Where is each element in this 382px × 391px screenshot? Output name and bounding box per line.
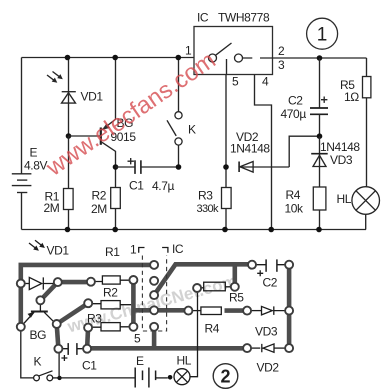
label VD3 pcb (255, 325, 278, 339)
svg-text:VD1: VD1 (81, 90, 104, 104)
pad C1 right (83, 345, 91, 353)
pad VD2 left (243, 344, 251, 352)
label E pcb (136, 354, 144, 368)
watermark red elecfans (41, 47, 221, 182)
svg-text:2M: 2M (44, 201, 60, 215)
wire trace pin5 stub (152, 327, 157, 349)
svg-text:1: 1 (317, 25, 328, 46)
pad C1 left (54, 345, 62, 353)
battery E (12, 146, 48, 193)
label IC pcb (172, 242, 184, 256)
capacitor C2 outline (256, 259, 285, 276)
pad R5 left (193, 284, 201, 292)
label HL pcb (177, 354, 192, 368)
svg-text:R2: R2 (92, 189, 107, 203)
node C1 left branch (57, 353, 61, 380)
wire base (69, 135, 101, 137)
node bottom rail pin4 (268, 227, 274, 233)
svg-text:1N4148: 1N4148 (320, 140, 360, 154)
node bottom rail R1 (65, 227, 71, 233)
node K middle junction (176, 164, 182, 170)
pad VD3 left (243, 307, 251, 315)
svg-text:R4: R4 (205, 322, 220, 336)
node bottom rail R3 (222, 227, 228, 233)
resistor R3 outline (92, 323, 129, 331)
node VD1 top rail (65, 55, 71, 61)
pad IC pin 2 (150, 277, 158, 285)
svg-text:VD1: VD1 (47, 244, 70, 258)
svg-text:VD3: VD3 (330, 153, 353, 167)
svg-text:R1: R1 (105, 245, 120, 259)
svg-text:5: 5 (134, 332, 141, 346)
svg-text:4: 4 (262, 75, 269, 89)
pad R2 left (84, 299, 92, 307)
wire pin 5 (225, 75, 227, 168)
svg-text:R3: R3 (198, 189, 213, 203)
pad base (36, 296, 44, 304)
wire trace pin3 diagonal to C2 rail (154, 264, 252, 295)
pad IC pin 4 (150, 306, 158, 314)
diode VD3 outline (251, 306, 285, 315)
pad IC pin 1 (150, 261, 158, 269)
svg-text:K: K (34, 355, 42, 369)
battery E outline (60, 368, 168, 388)
svg-text:3: 3 (278, 58, 285, 72)
svg-text:R2: R2 (103, 286, 118, 300)
figure number circle 2 (213, 364, 238, 389)
svg-text:R4: R4 (286, 188, 301, 202)
pad R4 left (184, 307, 192, 315)
label BG pcb (30, 328, 47, 342)
svg-text:2M: 2M (91, 202, 107, 216)
wire trace right vertical (287, 265, 292, 348)
svg-text:HL: HL (337, 192, 352, 206)
pin 1 label (185, 44, 192, 58)
wire left edge (battery branch) (21, 58, 23, 230)
label R2 pcb (103, 286, 118, 300)
transistor BG outline (24, 304, 54, 323)
light arrows into VD1 (47, 72, 63, 83)
label K pcb (34, 355, 42, 369)
svg-text:IC: IC (172, 242, 184, 256)
node K top rail (176, 55, 182, 61)
label pin5 pcb (134, 332, 141, 346)
node lamp junction (168, 375, 173, 380)
pad VD3 right (285, 307, 293, 315)
label VD1 pcb with arrows (29, 240, 69, 257)
svg-text:1: 1 (130, 243, 137, 257)
wire trace bottom bus (87, 346, 247, 351)
svg-text:R5: R5 (229, 291, 244, 305)
label pin1 pcb (130, 243, 137, 257)
label R1 pcb (105, 245, 120, 259)
pad R1 right (129, 276, 137, 284)
pad C2 right (285, 261, 293, 269)
node top-right rail (317, 55, 323, 61)
wire trace stub to R5 (233, 264, 238, 287)
resistor R2 outline (92, 301, 131, 309)
label VD2 pcb (257, 361, 280, 375)
pin labels 2 3 5 4 (232, 44, 285, 89)
pad emitter (17, 323, 25, 331)
switch K outline (21, 331, 60, 381)
resistor R2 (91, 167, 120, 230)
pad R3 right (129, 323, 137, 331)
pad R5 right (231, 283, 239, 291)
diode VD2 outline (251, 344, 285, 352)
svg-text:C2: C2 (288, 94, 303, 108)
IC dashed outline (139, 248, 168, 332)
svg-text:2: 2 (220, 367, 230, 387)
wire trace R2 to collector (57, 303, 88, 324)
wire trace R4 to VD3 (225, 308, 248, 313)
node bottom rail R4 (316, 227, 322, 233)
diode VD1 outline (25, 277, 54, 289)
label R5 pcb (229, 291, 244, 305)
svg-text:R3: R3 (87, 312, 102, 326)
wire trace VD1 cathode to R1 (58, 280, 91, 285)
svg-text:E: E (136, 354, 144, 368)
wire trace R1 right vertical (131, 280, 136, 327)
wire trace top rail + left border (21, 265, 154, 327)
svg-text:470µ: 470µ (281, 107, 307, 121)
resistor R1 outline (95, 276, 129, 284)
svg-text:E: E (30, 146, 38, 160)
pad VD1 cathode (54, 278, 62, 286)
node base junction (66, 133, 72, 139)
node C2/VD3 junction (317, 133, 323, 139)
resistor R3 (197, 167, 232, 230)
capacitor C1 outline (61, 343, 83, 361)
pad IC pin 5 (150, 323, 158, 331)
pad C2 left (248, 261, 256, 269)
svg-text:2: 2 (278, 44, 285, 58)
pad IC pin 3 (150, 291, 158, 299)
svg-text:BG: BG (30, 328, 47, 342)
svg-text:VD3: VD3 (255, 325, 278, 339)
pad VD2 right (285, 344, 293, 352)
capacitor C1 (116, 158, 179, 193)
photodiode VD1 (62, 58, 104, 137)
wire VD2 to C2 node (289, 136, 319, 167)
svg-text:1N4148: 1N4148 (230, 142, 270, 156)
lamp HL outline (174, 292, 198, 385)
svg-text:C1: C1 (82, 359, 97, 373)
svg-text:10k: 10k (285, 202, 305, 216)
svg-text:IC: IC (197, 11, 209, 25)
resistor R1 (44, 136, 74, 230)
node collector/C1 junction (113, 164, 119, 170)
svg-text:TWH8778: TWH8778 (218, 11, 270, 25)
svg-text:VD2: VD2 (257, 361, 280, 375)
svg-text:HL: HL (177, 354, 192, 368)
wire trace pin4 horizontal (133, 308, 188, 313)
diode VD3 1N4148 (311, 136, 360, 187)
wire top rail right (pins 2/3 to R5) (273, 57, 367, 59)
svg-text:C1: C1 (129, 179, 144, 193)
label C2 pcb (263, 276, 278, 290)
switch K (167, 58, 196, 168)
resistor R5 outline (201, 282, 231, 291)
lamp HL (337, 187, 380, 230)
svg-text:C2: C2 (263, 276, 278, 290)
pad R1 left (87, 278, 95, 286)
label R4 pcb (205, 322, 220, 336)
wire bottom rail (22, 229, 367, 231)
transistor BG 9015 (101, 58, 137, 168)
wire trace collector to C1 (57, 324, 59, 349)
diode VD2 1N4148 (230, 130, 289, 172)
svg-text:5: 5 (232, 75, 239, 89)
op-amp U1 / IC TWH8778 box (194, 11, 273, 75)
svg-text:4.7µ: 4.7µ (152, 179, 174, 193)
pad collector (53, 320, 61, 328)
svg-text:1Ω: 1Ω (344, 90, 359, 104)
svg-text:K: K (188, 123, 196, 137)
resistor R5 (340, 58, 371, 187)
wire top rail left (22, 57, 195, 59)
pad VD1 anode (17, 280, 25, 288)
figure number circle 1 (307, 18, 338, 49)
resistor R4 outline (192, 307, 221, 315)
svg-text:330k: 330k (197, 203, 220, 215)
wire trace VD1 cathode to base (40, 282, 57, 300)
node bottom rail R2 (112, 227, 118, 233)
pad R3 left (84, 324, 92, 332)
node pin5 middle junction (223, 164, 229, 170)
label R3 pcb (87, 312, 102, 326)
wire pin 4 (255, 75, 272, 230)
label C1 pcb (82, 359, 97, 373)
wire trace R3 to C1 right (87, 328, 88, 349)
node emitter top rail (112, 55, 118, 61)
resistor R4 (285, 187, 326, 230)
capacitor C2 470u (281, 58, 329, 136)
watermark gray chinaicnet (65, 271, 240, 336)
